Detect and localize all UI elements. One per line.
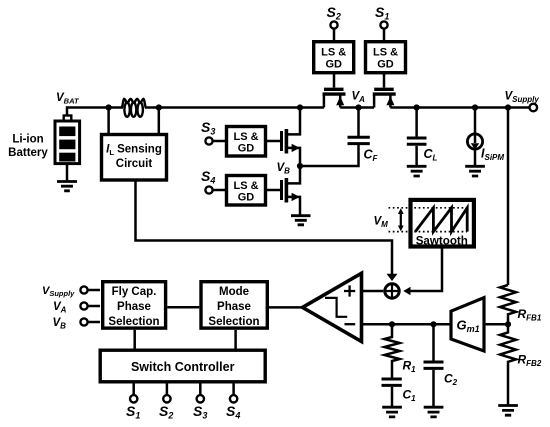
- wire: comparator output to Mode box: [269, 306, 303, 309]
- current source ISiPM: [467, 134, 482, 150]
- wire: VA to CF top plate: [357, 108, 360, 137]
- node: rail junction at CL: [414, 104, 420, 110]
- Mode Phase Selection box: [201, 282, 267, 329]
- comparator + input mark: [344, 285, 355, 296]
- terminal S3 (bottom): [197, 395, 204, 402]
- node VA junction: [355, 104, 361, 110]
- transistor Q3 drain leg to rail: [287, 108, 300, 135]
- transistor Q3 source leg to VB: [287, 148, 300, 166]
- wire: S2 terminal to LS&GD: [333, 29, 336, 40]
- wire: rail to ISiPM: [474, 108, 477, 134]
- svg-text:Li-ion: Li-ion: [12, 134, 43, 146]
- capacitor CF: [348, 137, 370, 143]
- transistor M1 right leg: [389, 96, 392, 108]
- R1 label: [403, 359, 417, 375]
- CL label: [424, 147, 438, 163]
- ISiPM label: [481, 147, 504, 163]
- transistor Q3 channel bar: [285, 129, 289, 154]
- svg-text:GD: GD: [238, 143, 255, 155]
- RFB1 label: [518, 307, 542, 323]
- node VB (left) label: [53, 317, 67, 331]
- wire: summing node to comparator + input: [362, 290, 384, 293]
- S3 label: [201, 119, 215, 137]
- node VSupply label: [505, 91, 540, 105]
- wire: FlyCap to Mode box: [167, 306, 199, 309]
- ground (CL): [407, 166, 427, 176]
- wire: VB to CF bottom: [300, 144, 359, 166]
- RFB2 label: [518, 353, 542, 369]
- node: rail junction at feedback: [505, 104, 511, 110]
- LS & GD box (S1): [366, 42, 406, 73]
- wire: IL sensing output to summing node (down, right, down): [136, 180, 393, 275]
- terminal VSupply: [530, 104, 538, 112]
- svg-text:Mode: Mode: [219, 286, 249, 298]
- resistor RFB1: [500, 285, 516, 324]
- wire: left junction to IL sensing box: [107, 108, 110, 134]
- node: rail-inductor right junction: [156, 104, 162, 110]
- wire: S4 terminal to LS&GD box: [213, 189, 225, 192]
- S2 bottom label: [159, 403, 173, 421]
- arrowhead into summing node (right): [403, 287, 410, 295]
- summing node: [384, 283, 400, 299]
- Sawtooth generator box: [411, 200, 474, 247]
- S4 label: [201, 168, 215, 186]
- wire: Mode box to Switch Controller: [234, 330, 237, 349]
- capacitor CL: [407, 138, 427, 144]
- svg-text:Fly Cap.: Fly Cap.: [112, 286, 157, 298]
- svg-text:Selection: Selection: [208, 316, 259, 328]
- IL Sensing Circuit box: [102, 135, 167, 181]
- S2 label: [327, 4, 341, 22]
- transistor Q4 source arrow: [292, 193, 300, 201]
- wire: VA terminal to FlyCap box: [88, 305, 100, 308]
- S3 bottom label: [193, 403, 207, 421]
- wire: rail inductor-right to M2: [146, 106, 324, 109]
- CF label: [364, 148, 379, 164]
- svg-text:Phase: Phase: [117, 301, 151, 313]
- resistor RFB2: [500, 324, 516, 405]
- svg-text:Sawtooth: Sawtooth: [416, 235, 468, 248]
- transistor M1 left leg: [373, 96, 376, 108]
- amplifier Gm1: [451, 298, 484, 351]
- VM label: [374, 216, 389, 230]
- wire: right junction to IL sensing box: [158, 108, 161, 134]
- wire: LS&GD to M2 gate: [333, 73, 336, 88]
- wire: controller output stub S4: [232, 384, 235, 396]
- svg-text:IL Sensing: IL Sensing: [106, 144, 162, 158]
- wire: S3 terminal to LS&GD box: [213, 140, 225, 143]
- terminal VB (left): [80, 318, 87, 325]
- svg-text:GD: GD: [377, 59, 394, 71]
- ground (ISiPM): [465, 166, 485, 176]
- transistor M2 channel bar: [323, 92, 346, 95]
- wire: C2 to ground: [432, 370, 435, 407]
- wire: rail right segment to VSupply: [390, 106, 529, 109]
- arrowhead into summing node (top): [387, 274, 398, 281]
- comparator U1: [303, 273, 362, 341]
- Switch Controller box: [100, 350, 265, 382]
- transistor Q4 drain leg to VB: [287, 166, 300, 183]
- node VB label: [277, 162, 291, 176]
- svg-text:LS &: LS &: [233, 131, 258, 143]
- node VA label: [352, 91, 366, 105]
- node: rail junction above Q3: [297, 104, 303, 110]
- ground (battery): [57, 182, 77, 191]
- node VA (left) label: [53, 301, 67, 315]
- ground (C1): [382, 407, 402, 417]
- wire: battery to ground: [66, 164, 69, 181]
- terminal S3: [205, 137, 212, 144]
- terminal S2 (bottom): [163, 395, 170, 402]
- wire: sawtooth output to summing node: [410, 247, 443, 292]
- svg-text:GD: GD: [325, 59, 342, 71]
- node: C2 top junction: [430, 321, 436, 327]
- node VBAT label: [56, 92, 80, 106]
- node: R1 top junction: [389, 321, 395, 327]
- inductor: [121, 99, 146, 117]
- S1 label: [375, 4, 389, 22]
- C2 label: [444, 372, 458, 388]
- wire: LS&GD to M1 gate: [383, 73, 386, 88]
- wire: VSupply terminal to FlyCap box: [88, 289, 100, 292]
- svg-text:GD: GD: [238, 192, 255, 204]
- S4 bottom label: [226, 403, 240, 421]
- transistor Q4 source leg to ground: [287, 197, 300, 216]
- C1 label: [403, 388, 417, 404]
- terminal S1 (bottom): [130, 395, 137, 402]
- comparator hysteresis symbol: [325, 298, 347, 317]
- terminal S4: [205, 186, 212, 193]
- terminal S2: [330, 21, 337, 28]
- wire: rail segment between M2 and M1: [340, 106, 374, 109]
- svg-text:Phase: Phase: [217, 301, 251, 313]
- VM measurement arrow: [398, 208, 404, 231]
- resistor R1: [384, 324, 399, 377]
- transistor M2 right leg: [339, 96, 342, 108]
- terminal VA (left): [80, 302, 87, 309]
- wire: CL to ground: [415, 146, 418, 166]
- wire: comparator - input feedback line: [362, 323, 451, 326]
- node: rail-inductor left junction: [106, 104, 112, 110]
- wire: controller output stub S1: [132, 384, 135, 396]
- battery label: [8, 134, 48, 160]
- LS & GD box (S3): [227, 127, 266, 157]
- LS & GD box (S4): [227, 176, 266, 206]
- capacitor C2: [424, 362, 444, 368]
- svg-text:LS &: LS &: [321, 47, 346, 59]
- transistor M2 left leg: [323, 96, 326, 108]
- transistor Q4 (S4 switch) gate bar: [280, 180, 283, 200]
- ground (RFB2): [498, 406, 518, 416]
- node: rail junction at ISiPM: [472, 104, 478, 110]
- terminal S1: [380, 21, 387, 28]
- ground (C2): [424, 407, 444, 417]
- battery (Li-ion): [55, 116, 80, 164]
- terminal VSupply (left): [80, 286, 87, 293]
- svg-text:Switch Controller: Switch Controller: [131, 360, 235, 374]
- svg-text:Selection: Selection: [108, 316, 159, 328]
- Fly Cap. Phase Selection box: [103, 282, 166, 329]
- node VB junction: [297, 163, 303, 169]
- wire: LS&GD to Q4 gate: [266, 189, 280, 192]
- wire: LS&GD to Q3 gate: [266, 140, 280, 143]
- sawtooth waveform: [415, 208, 467, 232]
- svg-text:Circuit: Circuit: [116, 158, 153, 170]
- node VSupply (left) label: [42, 285, 75, 298]
- transistor Q3 (S3 switch) gate bar: [280, 131, 283, 151]
- S1 bottom label: [126, 403, 140, 421]
- capacitor C1: [382, 379, 402, 385]
- terminal S4 (bottom): [230, 395, 237, 402]
- wire: VBAT rail left segment: [67, 108, 122, 118]
- wire: VB terminal to FlyCap box: [88, 321, 100, 324]
- svg-text:Battery: Battery: [8, 147, 48, 159]
- wire: ISiPM to ground: [474, 149, 477, 166]
- wire: S1 terminal to LS&GD: [383, 29, 386, 40]
- transistor M2 body arrow: [336, 96, 344, 105]
- svg-text:LS &: LS &: [233, 180, 258, 192]
- transistor M1 channel bar: [373, 92, 396, 95]
- wire: controller output stub S3: [199, 384, 202, 396]
- LS & GD box (S2): [314, 42, 354, 73]
- svg-text:LS &: LS &: [373, 47, 398, 59]
- dotted level lines for VM: [389, 208, 468, 232]
- node: feedback divider junction: [505, 321, 511, 327]
- transistor M1 body arrow: [386, 96, 394, 105]
- wire: controller output stub S2: [166, 384, 169, 396]
- transistor M2 (S2 switch) gate bar: [324, 88, 344, 91]
- transistor Q4 channel bar: [285, 178, 289, 203]
- wire: C1 to ground: [391, 387, 394, 407]
- wire: C2 stub: [432, 324, 435, 360]
- wire: rail to CL: [415, 108, 418, 137]
- comparator - input mark: [345, 323, 356, 325]
- wire: Gm1 input from divider: [486, 323, 508, 326]
- wire: FlyCap box to Switch Controller: [133, 330, 136, 349]
- transistor Q3 source arrow: [292, 144, 300, 152]
- ground (Q4 source): [291, 216, 311, 225]
- transistor M1 (S1 switch) gate bar: [374, 88, 394, 91]
- Sawtooth label: [416, 235, 468, 248]
- wire: rail down to RFB1: [507, 108, 510, 286]
